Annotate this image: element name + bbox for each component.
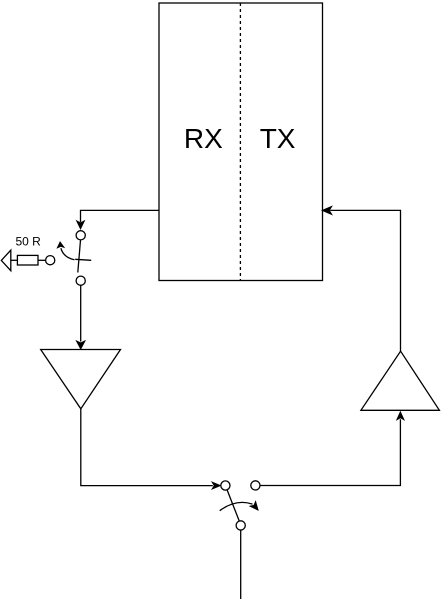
- transceiver block U1 (RX/TX): [159, 3, 323, 281]
- switch S2 arm: [227, 490, 239, 521]
- wire RX amp to switch S2: [81, 409, 221, 489]
- switch S2 contact (right): [251, 481, 260, 490]
- svg-text:50 R: 50 R: [16, 234, 42, 248]
- svg-text:TX: TX: [260, 123, 296, 154]
- switch S1 contact (top): [76, 231, 85, 240]
- resistor R1 (50 R): [17, 255, 38, 265]
- switch S2 pole contact: [236, 521, 245, 530]
- wire resistor to contact: [38, 259, 46, 261]
- switch S2 rotation arrow: [220, 502, 258, 511]
- switch S1 contact (bottom): [76, 276, 85, 285]
- terminator contact circle: [46, 256, 55, 265]
- label TX: [260, 123, 296, 154]
- svg-text:RX: RX: [184, 123, 223, 154]
- switch S1 arm: [78, 240, 81, 273]
- label 50 R: [16, 234, 42, 248]
- switch S1 throw tick: [75, 259, 91, 260]
- switch S2 contact (left): [221, 481, 230, 490]
- wire port to resistor: [11, 259, 18, 261]
- wire RX output: box left edge to switch S1 top: [77, 210, 159, 228]
- label RX: [184, 123, 223, 154]
- wire TX amp to box right edge: [322, 206, 400, 351]
- terminator port triangle: [1, 250, 11, 271]
- wire S2 right contact to TX amplifier: [260, 412, 404, 486]
- amplifier A1 (RX, pointing down): [41, 350, 121, 409]
- amplifier A2 (TX, pointing up): [361, 351, 440, 410]
- wire S1 to RX amplifier: [77, 285, 85, 349]
- wire antenna (S2 pole downward): [240, 530, 242, 599]
- switch S1 rotation arrow: [57, 242, 74, 260]
- RX/TX divider (dashed): [239, 3, 241, 281]
